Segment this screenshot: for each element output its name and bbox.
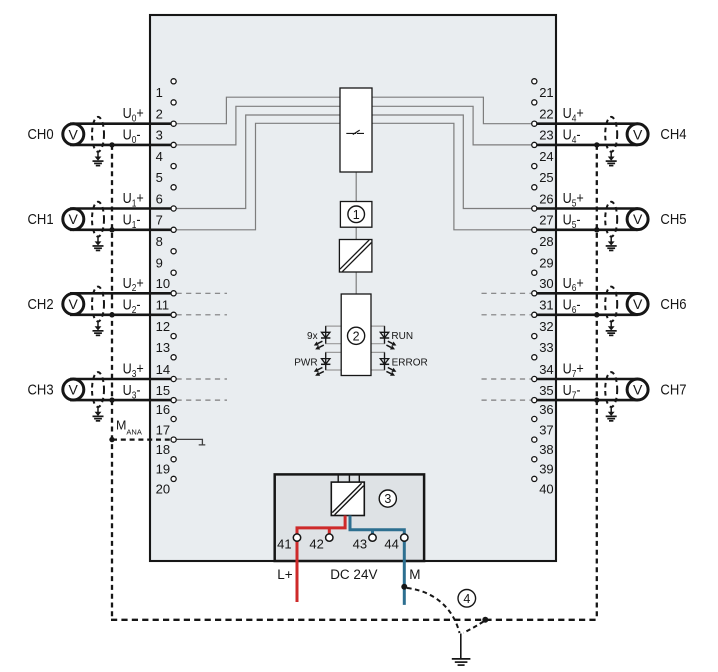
svg-text:42: 42 <box>309 536 323 551</box>
node shield-bus to earth junction <box>482 617 488 623</box>
svg-text:14: 14 <box>156 362 170 377</box>
svg-text:U5-: U5- <box>563 211 581 231</box>
terminal 7 <box>156 206 177 228</box>
shield ground CH0 <box>93 152 104 166</box>
svg-text:9x: 9x <box>307 331 318 342</box>
wire MANA dashed to terminal 17 <box>112 438 171 440</box>
terminal 17 <box>156 416 177 437</box>
svg-text:18: 18 <box>156 442 170 457</box>
svg-text:6: 6 <box>156 191 163 206</box>
channel CH2 voltmeter and wires <box>63 293 171 315</box>
LED ERROR <box>380 352 397 375</box>
shield ellipse CH2 <box>92 287 104 322</box>
LED group 9x (green channel LEDs) <box>314 326 331 349</box>
terminal 39 <box>532 457 554 477</box>
multiplexer box with switch symbol <box>340 88 372 172</box>
junction shield CH1 <box>109 227 114 232</box>
svg-text:11: 11 <box>156 298 170 313</box>
wire lead terminal 3 to riser <box>176 106 340 145</box>
terminal 20 <box>156 476 177 496</box>
svg-text:7: 7 <box>156 213 163 228</box>
svg-text:U4-: U4- <box>563 126 581 146</box>
terminal 31 <box>532 291 554 313</box>
svg-text:9: 9 <box>156 256 163 271</box>
wire dashed stub terminal 11 <box>177 314 228 316</box>
wire dashed stub terminal 30 <box>482 292 532 294</box>
svg-text:17: 17 <box>156 422 170 437</box>
channel CH7 voltmeter and wires <box>536 379 648 400</box>
terminal 21 <box>532 79 554 100</box>
terminal 37 <box>532 416 554 437</box>
terminal 34 <box>532 355 554 377</box>
terminal 43 <box>353 534 377 552</box>
svg-text:U1+: U1+ <box>123 189 144 209</box>
svg-text:34: 34 <box>539 362 553 377</box>
wire dashed curve M to earth <box>407 588 460 633</box>
module body (analog input module) <box>150 15 556 561</box>
svg-text:16: 16 <box>156 402 170 417</box>
svg-text:V: V <box>633 211 643 227</box>
svg-text:ERROR: ERROR <box>392 357 428 368</box>
svg-text:CH4: CH4 <box>660 127 686 143</box>
channel CH5 voltmeter and wires <box>536 209 648 230</box>
svg-text:40: 40 <box>539 481 553 496</box>
wire dashed stub terminal 14 <box>177 378 228 380</box>
svg-text:U0+: U0+ <box>123 104 144 124</box>
wire terminal 17 internal stub <box>177 439 206 445</box>
terminal 38 <box>532 437 554 457</box>
wire bus to terminal 26 <box>372 115 532 209</box>
svg-text:V: V <box>633 296 643 312</box>
shield ground CH7 <box>606 407 617 421</box>
wire L+ red <box>297 516 345 603</box>
svg-text:19: 19 <box>156 462 170 477</box>
svg-text:DC 24V: DC 24V <box>330 567 377 582</box>
terminal 23 <box>532 121 554 143</box>
terminal 6 <box>156 185 177 207</box>
terminal 9 <box>156 249 177 271</box>
shield ellipse CH4 <box>605 117 617 152</box>
terminal 22 <box>532 100 554 122</box>
svg-text:30: 30 <box>539 276 553 291</box>
channel CH3 voltmeter and wires <box>63 379 171 400</box>
svg-text:41: 41 <box>277 536 291 551</box>
terminal 18 <box>156 437 177 457</box>
wire lead terminal 6 to riser <box>176 115 340 209</box>
shield ellipse CH1 <box>92 202 104 237</box>
wire M blue <box>350 516 404 605</box>
terminal 29 <box>532 249 554 271</box>
terminal 8 <box>156 227 177 249</box>
shield ellipse CH6 <box>605 287 617 322</box>
shield ellipse CH5 <box>605 202 617 237</box>
svg-text:27: 27 <box>539 213 553 228</box>
svg-text:U6+: U6+ <box>563 274 584 294</box>
svg-text:8: 8 <box>156 234 163 249</box>
wire dashed stub terminal 34 <box>482 378 532 380</box>
terminal 16 <box>156 398 177 417</box>
svg-text:U3+: U3+ <box>123 359 144 379</box>
svg-text:V: V <box>633 382 643 398</box>
terminal 15 <box>156 376 177 398</box>
svg-text:4: 4 <box>156 149 163 164</box>
svg-text:35: 35 <box>539 383 553 398</box>
junction shield CH3 <box>109 397 114 402</box>
svg-text:31: 31 <box>539 298 553 313</box>
terminal 33 <box>532 334 554 356</box>
svg-text:CH0: CH0 <box>28 127 54 143</box>
svg-text:1: 1 <box>156 85 163 100</box>
shield ellipse CH0 <box>92 117 104 152</box>
LED stub frame bottom-right <box>371 352 385 370</box>
wire dashed stub terminal 10 <box>177 292 228 294</box>
svg-text:U1-: U1- <box>123 211 141 231</box>
svg-text:V: V <box>69 296 79 312</box>
wire mux to block 1 <box>355 172 357 202</box>
svg-text:13: 13 <box>156 340 170 355</box>
svg-text:44: 44 <box>384 536 398 551</box>
terminal 3 <box>156 121 177 143</box>
svg-text:4: 4 <box>463 592 470 606</box>
svg-text:CH7: CH7 <box>660 382 686 398</box>
terminal 4 <box>156 142 177 164</box>
svg-text:RUN: RUN <box>391 331 413 342</box>
junction shield CH0 <box>109 142 114 147</box>
terminal 1 <box>156 79 177 100</box>
svg-text:24: 24 <box>539 149 553 164</box>
svg-text:U7-: U7- <box>563 381 581 401</box>
channel CH4 voltmeter and wires <box>536 124 648 145</box>
svg-text:36: 36 <box>539 402 553 417</box>
wire shield bus right dashed <box>596 145 598 620</box>
terminal 14 <box>156 355 177 377</box>
svg-text:U3-: U3- <box>123 381 141 401</box>
svg-text:M: M <box>409 567 420 582</box>
svg-text:23: 23 <box>539 128 553 143</box>
svg-text:3: 3 <box>384 492 391 506</box>
wire lead terminal 7 to riser <box>176 123 340 230</box>
ground earth symbol <box>452 634 471 666</box>
svg-text:29: 29 <box>539 256 553 271</box>
shield ground CH3 <box>93 407 104 421</box>
block U2 circled 2 <box>341 294 371 376</box>
svg-text:CH6: CH6 <box>660 296 686 312</box>
shield ground CH2 <box>93 321 104 335</box>
svg-text:28: 28 <box>539 234 553 249</box>
wire block 1 to ADC <box>355 227 357 239</box>
svg-text:37: 37 <box>539 422 553 437</box>
shield ellipse CH3 <box>92 372 104 407</box>
terminal 5 <box>156 164 177 186</box>
junction shield CH7 <box>594 397 599 402</box>
shield ground CH1 <box>93 236 104 250</box>
svg-text:L+: L+ <box>277 567 293 582</box>
terminal 32 <box>532 312 554 334</box>
svg-text:10: 10 <box>156 276 170 291</box>
terminal 27 <box>532 206 554 228</box>
svg-text:22: 22 <box>539 107 553 122</box>
terminal 36 <box>532 398 554 417</box>
svg-text:43: 43 <box>353 536 367 551</box>
LED stub frame bottom-left <box>326 352 342 370</box>
junction shield CH2 <box>109 312 114 317</box>
wire dashed stub terminal 35 <box>482 399 532 401</box>
DC/DC converter box <box>331 482 364 515</box>
svg-text:V: V <box>69 211 79 227</box>
power section box <box>275 474 424 561</box>
svg-text:U2-: U2- <box>123 296 141 316</box>
shield ground CH5 <box>606 236 617 250</box>
svg-text:25: 25 <box>539 170 553 185</box>
junction shield CH4 <box>594 142 599 147</box>
power supply pins <box>338 475 359 482</box>
svg-text:CH1: CH1 <box>28 211 54 227</box>
terminal 28 <box>532 227 554 249</box>
svg-text:U0-: U0- <box>123 126 141 146</box>
channel CH1 voltmeter and wires <box>63 209 171 230</box>
svg-text:V: V <box>69 382 79 398</box>
terminal 11 <box>156 291 177 313</box>
terminal 24 <box>532 142 554 164</box>
svg-text:12: 12 <box>156 319 170 334</box>
node MANA junction <box>109 437 114 442</box>
svg-text:CH2: CH2 <box>28 296 54 312</box>
terminal 2 <box>156 100 177 122</box>
svg-text:2: 2 <box>353 329 360 343</box>
svg-text:CH5: CH5 <box>660 211 686 227</box>
svg-text:39: 39 <box>539 462 553 477</box>
svg-text:21: 21 <box>539 85 553 100</box>
svg-text:2: 2 <box>156 107 163 122</box>
terminal 12 <box>156 312 177 334</box>
wire dashed shield bus to earth <box>464 622 484 633</box>
terminal 30 <box>532 270 554 291</box>
svg-text:20: 20 <box>156 481 170 496</box>
svg-text:3: 3 <box>156 128 163 143</box>
terminal 25 <box>532 164 554 186</box>
LED stub frame top-right <box>371 326 385 344</box>
terminal 41 <box>277 534 301 552</box>
junction shield CH6 <box>594 312 599 317</box>
junction shield CH5 <box>594 227 599 232</box>
terminal 40 <box>532 476 554 496</box>
wire ADC to block 2 <box>355 272 357 294</box>
svg-text:PWR: PWR <box>294 357 317 368</box>
svg-text:V: V <box>69 126 79 142</box>
svg-text:1: 1 <box>353 208 360 222</box>
svg-text:U6-: U6- <box>563 296 581 316</box>
svg-text:U2+: U2+ <box>123 274 144 294</box>
wire dashed stub terminal 31 <box>482 314 532 316</box>
node M junction <box>401 584 407 590</box>
wire shield bus left dashed <box>111 145 113 620</box>
ADC box with diagonal <box>339 240 372 273</box>
svg-text:32: 32 <box>539 319 553 334</box>
wire dashed stub terminal 15 <box>177 399 228 401</box>
circled 4 <box>458 590 476 608</box>
channel CH6 voltmeter and wires <box>536 293 648 315</box>
svg-text:U7+: U7+ <box>563 359 584 379</box>
LED RUN <box>380 326 397 349</box>
wire bus to terminal 23 <box>372 106 532 145</box>
shield ground CH6 <box>606 321 617 335</box>
svg-text:26: 26 <box>539 191 553 206</box>
svg-text:38: 38 <box>539 442 553 457</box>
terminal 13 <box>156 334 177 356</box>
wire bus to terminal 27 <box>372 123 532 230</box>
channel CH0 voltmeter and wires <box>63 124 171 145</box>
svg-text:U5+: U5+ <box>563 189 584 209</box>
terminal 26 <box>532 185 554 207</box>
terminal 19 <box>156 457 177 477</box>
LED stub frame top-left <box>326 326 342 344</box>
wire lead terminal 2 to riser <box>176 97 340 124</box>
svg-text:15: 15 <box>156 383 170 398</box>
terminal 35 <box>532 376 554 398</box>
svg-text:U4+: U4+ <box>563 104 584 124</box>
terminal 42 <box>309 534 333 552</box>
svg-text:V: V <box>633 126 643 142</box>
shield ground CH4 <box>606 152 617 166</box>
shield ellipse CH7 <box>605 372 617 407</box>
svg-text:5: 5 <box>156 170 163 185</box>
block U1 circled 1 <box>340 202 372 228</box>
wire shield bus bottom dashed <box>111 619 598 621</box>
svg-text:CH3: CH3 <box>28 382 54 398</box>
terminal 44 <box>384 534 408 552</box>
LED PWR <box>314 352 331 375</box>
svg-text:MANA: MANA <box>116 419 142 437</box>
terminal 10 <box>156 270 177 291</box>
svg-text:33: 33 <box>539 340 553 355</box>
circled 3 <box>379 490 396 507</box>
wire bus to terminal 22 <box>372 97 532 124</box>
